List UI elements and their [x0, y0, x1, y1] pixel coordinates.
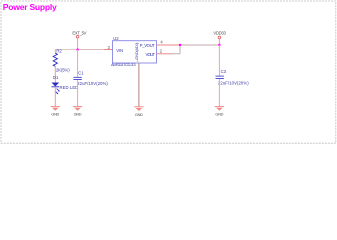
- svg-text:22uF/10V(20%): 22uF/10V(20%): [77, 81, 108, 86]
- svg-text:P_VOUT: P_VOUT: [140, 43, 155, 48]
- svg-text:C3: C3: [221, 69, 227, 74]
- svg-text:C1: C1: [78, 71, 84, 76]
- node junction VDD33 rail: [218, 44, 220, 46]
- wire R2 top stub: [54, 50, 56, 54]
- svg-text:22uF/10V(20%): 22uF/10V(20%): [218, 81, 249, 86]
- power port EXT_5V: [72, 30, 86, 38]
- svg-text:VOUT: VOUT: [146, 52, 156, 57]
- wire C3 to GND: [218, 79, 220, 107]
- ground GND (C1): [73, 107, 82, 117]
- LED D1: [52, 75, 79, 94]
- wire P_VOUT pin 4 to VDD33 rail: [157, 44, 181, 46]
- wire U2 GND pin to GND: [138, 63, 140, 107]
- svg-text:EXT_5V: EXT_5V: [72, 30, 86, 35]
- svg-text:GND: GND: [74, 112, 82, 117]
- svg-text:GND: GND: [135, 112, 143, 117]
- svg-text:GND: GND: [51, 112, 59, 117]
- ground GND (left, D1): [51, 107, 60, 117]
- wire VIN pin stub: [104, 49, 113, 51]
- wire R2 bottom to LED: [54, 66, 56, 82]
- power port VDD33: [213, 30, 226, 45]
- svg-text:U2: U2: [113, 36, 119, 41]
- wire top rail left (R2 to junction): [55, 49, 77, 51]
- svg-text:VIN: VIN: [116, 48, 123, 53]
- wire C1 to GND: [77, 80, 79, 107]
- svg-text:AMS1117CD-3.3: AMS1117CD-3.3: [111, 62, 136, 67]
- wire EXT_5V stub down to rail: [77, 38, 79, 49]
- wire top rail right (junction to U2 VIN pin): [78, 49, 104, 51]
- node junction EXT_5V rail: [76, 48, 78, 50]
- svg-text:R2: R2: [56, 48, 62, 53]
- wire VOUT pin 2 jog up: [157, 53, 172, 55]
- ground GND (U2): [134, 107, 143, 117]
- op-amp U2 regulator AMS1117 box: [111, 36, 157, 67]
- ground GND (C3): [215, 107, 224, 117]
- svg-text:Power Supply: Power Supply: [3, 2, 57, 12]
- wire VDD33 down to C3: [218, 45, 220, 76]
- sheet border: [1, 1, 336, 143]
- svg-text:D1: D1: [53, 75, 59, 80]
- svg-text:VDD33: VDD33: [213, 30, 226, 35]
- svg-text:GND: GND: [215, 112, 223, 117]
- resistor R2: [53, 53, 57, 66]
- wire LED to GND: [54, 87, 56, 107]
- capacitor C3: [216, 69, 250, 85]
- node junction VOUT/P_VOUT: [179, 44, 181, 46]
- svg-text:RED LED: RED LED: [60, 85, 79, 90]
- svg-text:2K(5%): 2K(5%): [56, 68, 70, 73]
- wire junction down to C1: [77, 50, 79, 77]
- capacitor C1: [73, 71, 108, 86]
